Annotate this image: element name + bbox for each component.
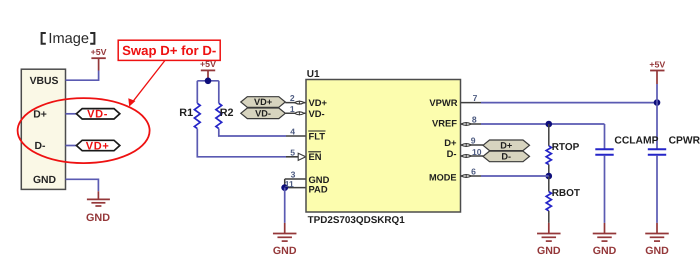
svg-text:GND: GND xyxy=(537,245,561,257)
svg-text:RBOT: RBOT xyxy=(552,188,580,199)
svg-text:VD+: VD+ xyxy=(254,97,272,107)
svg-text:CPWR: CPWR xyxy=(669,136,700,147)
svg-text:D-: D- xyxy=(447,148,457,159)
svg-text:GND: GND xyxy=(273,245,297,257)
svg-text:EN: EN xyxy=(309,151,322,162)
svg-text:GND: GND xyxy=(33,175,57,186)
svg-text:Image: Image xyxy=(48,31,89,47)
svg-text:GND: GND xyxy=(86,212,110,224)
svg-text:D-: D- xyxy=(35,141,47,152)
svg-text:5: 5 xyxy=(290,147,295,157)
svg-text:RTOP: RTOP xyxy=(552,142,580,153)
svg-text:FLT: FLT xyxy=(309,130,326,141)
svg-text:4: 4 xyxy=(290,127,295,137)
svg-text:VBUS: VBUS xyxy=(30,76,59,87)
svg-text:D+: D+ xyxy=(33,109,47,120)
svg-text:VD-: VD- xyxy=(255,109,271,119)
svg-text:TPD2S703QDSKRQ1: TPD2S703QDSKRQ1 xyxy=(308,215,406,226)
svg-text:2: 2 xyxy=(290,93,295,103)
svg-text:GND: GND xyxy=(593,245,617,257)
svg-text:VREF: VREF xyxy=(432,118,457,129)
svg-text:PAD: PAD xyxy=(309,184,328,195)
svg-text:1: 1 xyxy=(290,104,295,114)
svg-text:VD-: VD- xyxy=(309,108,325,119)
svg-text:MODE: MODE xyxy=(429,173,457,183)
svg-text:D-: D- xyxy=(501,152,511,162)
svg-text:+5V: +5V xyxy=(649,59,665,69)
svg-text:+5V: +5V xyxy=(91,47,107,57)
svg-text:R2: R2 xyxy=(220,107,234,119)
svg-text:7: 7 xyxy=(473,93,478,103)
svg-text:GND: GND xyxy=(645,245,669,257)
svg-text:8: 8 xyxy=(472,115,477,125)
svg-text:U1: U1 xyxy=(307,69,320,80)
svg-text:6: 6 xyxy=(471,167,476,177)
svg-text:VD+: VD+ xyxy=(309,97,328,108)
svg-text:11: 11 xyxy=(285,179,294,189)
svg-text:9: 9 xyxy=(471,135,476,145)
svg-text:D+: D+ xyxy=(444,137,457,148)
svg-text:R1: R1 xyxy=(179,107,193,119)
svg-text:+5V: +5V xyxy=(200,59,216,69)
svg-text:VD-: VD- xyxy=(87,109,108,121)
svg-text:CCLAMP: CCLAMP xyxy=(614,136,658,147)
svg-text:Swap D+ for D-: Swap D+ for D- xyxy=(122,43,216,58)
svg-text:VD+: VD+ xyxy=(86,140,110,152)
svg-text:VPWR: VPWR xyxy=(429,97,457,108)
svg-text:D+: D+ xyxy=(500,141,512,151)
